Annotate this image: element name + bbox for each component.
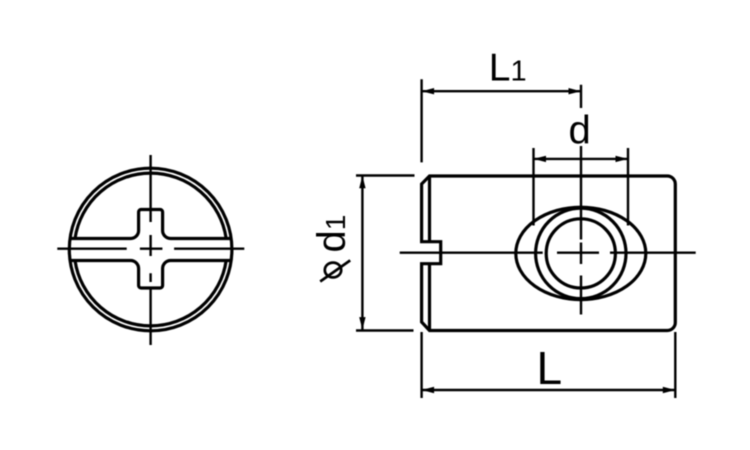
dimension d: right arrowhead bbox=[616, 156, 629, 162]
dimension d: left extension line bbox=[532, 148, 534, 226]
right view: thread minor circle bbox=[546, 219, 615, 288]
dimension L1: right arrowhead bbox=[569, 88, 582, 94]
svg-text:L: L bbox=[537, 342, 563, 394]
left view: vertical center line bbox=[149, 155, 151, 345]
dimension phi-d1: rotated label "phi d1" bbox=[310, 215, 354, 282]
dimension L: right arrowhead bbox=[663, 387, 676, 393]
dimension L1: dimension line bbox=[422, 90, 581, 92]
left view: phillips cross recess lower outline bbox=[70, 261, 231, 289]
dimension d: left arrowhead bbox=[534, 156, 547, 162]
svg-text:d1: d1 bbox=[310, 215, 354, 253]
svg-text:L1: L1 bbox=[489, 46, 527, 89]
dimension phi-d1: bottom extension line bbox=[356, 329, 414, 331]
right view: horizontal center line bbox=[400, 251, 696, 253]
dimension L: right extension line bbox=[674, 332, 676, 398]
dimension phi-d1: vertical dimension line bbox=[361, 176, 363, 330]
dimension L1: left extension line bbox=[420, 79, 422, 162]
left view: outer circle of nut face bbox=[69, 168, 232, 331]
right view: vertical hole center line (also L1 right extension) bbox=[580, 85, 582, 315]
dimension phi-d1: top extension line bbox=[356, 174, 415, 176]
left view: phillips cross recess upper outline bbox=[70, 210, 231, 239]
left view: inner circle (chamfer rim) bbox=[75, 173, 226, 326]
dimension d: right extension line bbox=[627, 148, 629, 226]
dimension phi-d1: bottom arrowhead bbox=[359, 317, 365, 330]
right view: body outline with left chamfers, slot notch and rounded right corners bbox=[422, 176, 676, 331]
right view: hole opening ellipse on cylindrical surface bbox=[516, 207, 646, 299]
right view: thread major circle d bbox=[536, 208, 626, 298]
dimension d: dimension line bbox=[534, 158, 629, 160]
dimension L: left extension line bbox=[420, 332, 422, 398]
dimension L: left arrowhead bbox=[422, 387, 435, 393]
dimension phi-d1: top arrowhead bbox=[359, 176, 365, 189]
svg-text:d: d bbox=[569, 109, 591, 153]
right view: chamfer edge line (vertical, interrupted by notch) bbox=[428, 178, 431, 330]
dimension L: dimension line bbox=[422, 389, 676, 391]
left view: horizontal center line bbox=[57, 247, 244, 249]
dimension L1: left arrowhead bbox=[422, 88, 435, 94]
